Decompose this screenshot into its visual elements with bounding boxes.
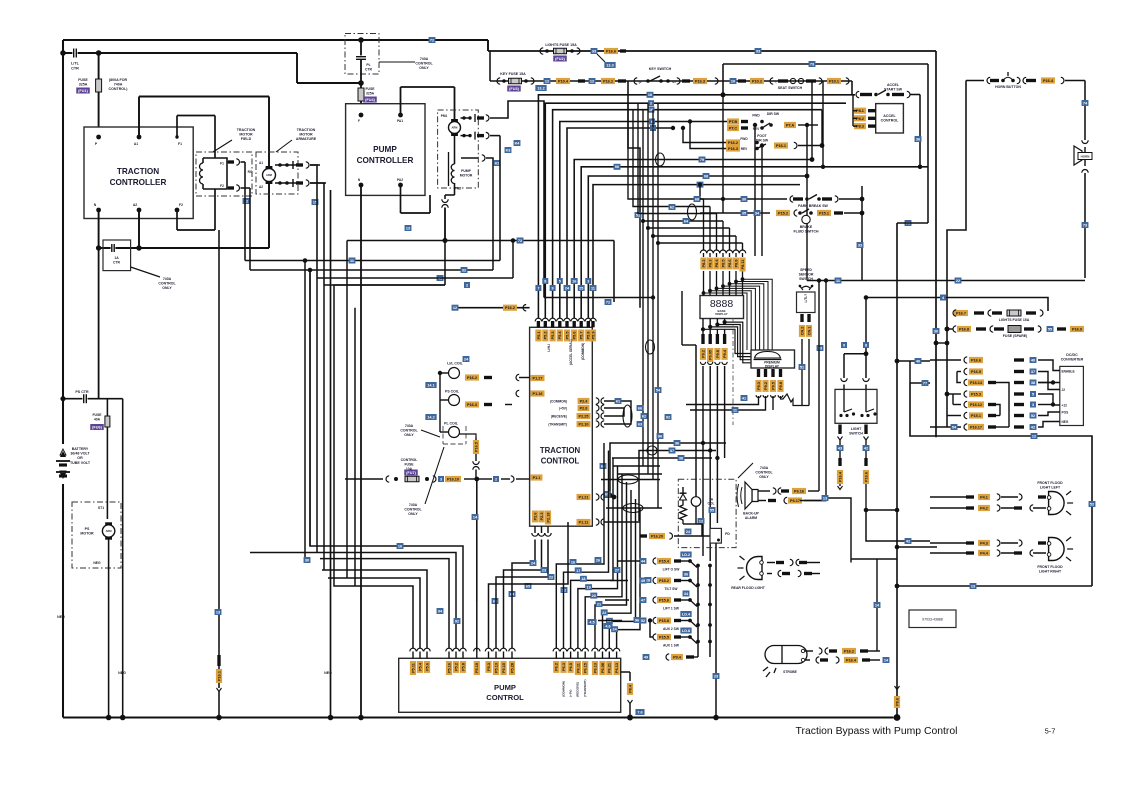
wire v947 (946, 311, 948, 427)
wire bottom negative bus (63, 716, 894, 718)
svg-text:BRAKE: BRAKE (800, 225, 813, 229)
svg-text:FRONT FLOOD: FRONT FLOOD (1037, 565, 1063, 569)
svg-text:(FU1): (FU1) (78, 89, 88, 93)
svg-text:52: 52 (1090, 502, 1094, 506)
label traction top pins (535, 330, 596, 342)
svg-text:23: 23 (714, 674, 718, 678)
node terminal A2 (133, 203, 142, 212)
svg-text:P9.8: P9.8 (716, 350, 720, 358)
svg-text:27: 27 (615, 568, 619, 572)
svg-text:ONLY: ONLY (419, 66, 429, 70)
svg-text:LIFT 1 SW: LIFT 1 SW (663, 607, 680, 611)
svg-text:42: 42 (864, 446, 868, 450)
wire v317 drop (316, 278, 318, 553)
label bundleA lbl3 (648, 107, 655, 113)
wire seat to accel (851, 81, 853, 95)
svg-text:P9.05: P9.05 (709, 350, 713, 360)
label pump comm sublabels (561, 680, 587, 698)
node row240 j (443, 238, 448, 243)
svg-text:PL COIL: PL COIL (444, 422, 459, 426)
svg-text:17: 17 (576, 569, 580, 573)
svg-text:PL: PL (366, 63, 370, 67)
wire lights column wiring (930, 360, 1009, 430)
transistor field TRACTION MOTOR FIELD (196, 152, 252, 196)
svg-text:P5.3: P5.3 (487, 663, 491, 671)
svg-text:FIELD: FIELD (241, 137, 252, 141)
label light feed lbls (841, 342, 869, 348)
label bundleB lbl1 (699, 157, 706, 163)
label horn lbls (1082, 222, 1089, 228)
svg-text:P8.6: P8.6 (728, 260, 732, 268)
svg-text:P2.10: P2.10 (579, 423, 589, 427)
lamp FRONT FLOOD LIGHT LEFT (1037, 481, 1073, 515)
svg-text:CONTROL: CONTROL (541, 457, 580, 466)
svg-text:MOTOR: MOTOR (299, 133, 313, 137)
label row280 lbls (835, 278, 962, 284)
svg-text:(TRANSMIT): (TRANSMIT) (583, 680, 587, 698)
svg-text:42: 42 (1031, 425, 1035, 429)
wire left border bus (62, 40, 64, 718)
svg-text:P8.11: P8.11 (741, 260, 745, 270)
label wire 11 (349, 258, 356, 264)
svg-text:(RECEIVE): (RECEIVE) (551, 415, 567, 419)
svg-text:REV: REV (741, 147, 748, 151)
svg-text:P5.6: P5.6 (425, 663, 429, 671)
svg-text:NEG: NEG (118, 671, 126, 675)
svg-text:FWD: FWD (752, 114, 760, 118)
svg-text:72: 72 (518, 239, 522, 243)
label 740A control only PD (738, 463, 774, 479)
switch PARK BREAK SW (700, 195, 862, 209)
node neg mid junction (328, 715, 334, 721)
svg-text:(FU4): (FU4) (365, 98, 375, 102)
svg-text:COL: COL (708, 502, 715, 506)
svg-text:P2.18: P2.18 (546, 513, 550, 523)
svg-text:4.5: 4.5 (589, 620, 594, 624)
label mid row lbls (657, 433, 685, 461)
svg-text:CTR: CTR (71, 66, 79, 70)
svg-text:33: 33 (756, 49, 760, 53)
svg-text:P1.21: P1.21 (579, 496, 589, 500)
connector comm oval (623, 405, 632, 427)
svg-text:11: 11 (591, 286, 595, 290)
svg-text:P16.4: P16.4 (838, 471, 842, 482)
label bundleA lbl4 (649, 119, 655, 125)
svg-text:PS CTR: PS CTR (75, 390, 89, 394)
wire row383 (910, 361, 930, 386)
svg-text:P16.2: P16.2 (844, 650, 854, 654)
svg-text:11: 11 (733, 408, 737, 412)
svg-text:P16.6: P16.6 (606, 50, 616, 54)
svg-text:3: 3 (1032, 403, 1034, 407)
svg-text:TRACTION: TRACTION (237, 128, 256, 132)
node N bus j2 (136, 245, 141, 250)
svg-text:LD.4: LD.4 (682, 612, 691, 616)
svg-text:12: 12 (453, 306, 457, 310)
label row296 lbl (940, 295, 946, 301)
label 8888 pin labels (700, 258, 745, 272)
svg-text:(+5V): (+5V) (568, 690, 572, 697)
svg-text:CONVERTER: CONVERTER (1061, 358, 1084, 362)
svg-text:740A: 740A (420, 57, 429, 61)
wire A1 to armature (139, 97, 269, 167)
svg-text:ARMATURE: ARMATURE (296, 137, 317, 141)
svg-text:P2.3: P2.3 (540, 513, 544, 521)
svg-text:2: 2 (466, 283, 468, 287)
label wire 33b (755, 48, 762, 54)
svg-text:RO: RO (248, 170, 253, 174)
svg-text:40A: 40A (94, 417, 101, 421)
svg-text:DIR SW: DIR SW (767, 112, 780, 116)
wire backup alarm link (800, 495, 851, 563)
switch DIR SW (727, 112, 818, 131)
op-amp DC/DC CONVERTER box (1060, 353, 1084, 426)
svg-text:P16.5: P16.5 (474, 442, 478, 452)
node terminal A1 (134, 135, 142, 146)
switch FOOT DIR SW (726, 134, 822, 152)
svg-text:P5.3: P5.3 (551, 332, 555, 340)
svg-text:S1: S1 (672, 80, 676, 84)
svg-text:49: 49 (644, 655, 648, 659)
svg-text:ST1: ST1 (98, 506, 104, 510)
motor PUMP MOTOR (438, 110, 479, 188)
connector lights connector column (964, 357, 984, 430)
svg-text:P5.13: P5.13 (494, 663, 498, 673)
capacitor LI/L CTR (71, 49, 80, 71)
svg-text:P16.3: P16.3 (728, 147, 738, 151)
wire row 285 (324, 284, 445, 286)
svg-text:P8.2: P8.2 (702, 260, 706, 268)
svg-text:PUMP: PUMP (461, 169, 472, 173)
wire armature drop 2 (310, 183, 324, 285)
wire accel right drop (919, 103, 921, 104)
svg-text:K2: K2 (495, 161, 500, 165)
svg-text:P5.6: P5.6 (573, 332, 577, 340)
svg-text:P6.21: P6.21 (608, 663, 612, 673)
svg-text:P6.5: P6.5 (569, 663, 573, 671)
wire pt return (806, 125, 808, 281)
svg-text:ARM: ARM (266, 173, 272, 177)
svg-text:BACK-UP: BACK-UP (743, 512, 759, 516)
svg-text:96: 96 (635, 618, 639, 622)
svg-text:LIGHTS FUSE 15A: LIGHTS FUSE 15A (999, 318, 1030, 322)
svg-text:P10.2: P10.2 (752, 80, 762, 84)
svg-text:P16.2: P16.2 (505, 306, 515, 310)
connector mid oval2 (618, 475, 638, 484)
svg-text:A1: A1 (259, 161, 263, 165)
label wire 13.3 (597, 54, 616, 68)
svg-text:65: 65 (526, 584, 530, 588)
svg-text:P6.16: P6.16 (794, 490, 804, 494)
svg-text:P9.8: P9.8 (779, 382, 783, 390)
label coil lbl 14.2 (425, 414, 436, 420)
label coil lbl 24 (463, 356, 470, 362)
svg-text:36: 36 (684, 572, 688, 576)
svg-text:45: 45 (641, 579, 645, 583)
svg-text:F1: F1 (220, 162, 224, 166)
svg-text:P16.17: P16.17 (970, 426, 982, 430)
wire PS fuse drop (106, 399, 108, 519)
wire light sw outputs (837, 425, 870, 511)
inductor pump field coil (449, 134, 473, 191)
wire 8888 pin risers (704, 199, 743, 250)
svg-text:12: 12 (590, 79, 594, 83)
svg-text:68: 68 (695, 197, 699, 201)
svg-text:ONLY: ONLY (162, 286, 172, 290)
wire pump coil bottom (442, 183, 455, 242)
svg-text:P5.2: P5.2 (454, 663, 458, 671)
wire bundle pump right fan (489, 437, 569, 648)
label wire 13 (405, 225, 412, 231)
wire horn feed row (723, 64, 928, 95)
svg-text:CONTROL: CONTROL (404, 508, 422, 512)
svg-text:P6.15: P6.15 (584, 663, 588, 673)
svg-text:P6.2: P6.2 (555, 663, 559, 671)
svg-text:36/48 VOLT: 36/48 VOLT (70, 452, 90, 456)
svg-text:POS: POS (1062, 411, 1069, 415)
svg-text:NEG: NEG (1062, 420, 1069, 424)
svg-text:PS: PS (85, 527, 90, 531)
svg-text:PD: PD (725, 532, 730, 536)
svg-text:7: 7 (537, 286, 539, 290)
switch BRAKE FLUID SWITCH (700, 209, 862, 234)
svg-text:LI/L COIL: LI/L COIL (447, 362, 463, 366)
svg-text:19: 19 (586, 586, 590, 590)
wire accel start right (910, 95, 922, 170)
label pump comm lbls (587, 557, 651, 629)
svg-text:FRONT FLOOD: FRONT FLOOD (1037, 481, 1063, 485)
wire alarm risers (817, 278, 828, 500)
label pump blue lbls (494, 140, 521, 166)
svg-text:740A: 740A (409, 503, 418, 507)
svg-text:33: 33 (592, 49, 596, 53)
svg-text:ARM: ARM (452, 126, 458, 130)
relay coil 1A COL (682, 291, 714, 533)
connector traction top pin connectors (535, 318, 596, 327)
label pin P1.21 (577, 494, 617, 500)
svg-text:P2.25: P2.25 (579, 415, 589, 419)
svg-text:16: 16 (571, 560, 575, 564)
svg-text:DISPLAY: DISPLAY (765, 365, 780, 369)
wire horn right drop (1082, 81, 1089, 141)
svg-text:77: 77 (923, 381, 927, 385)
svg-text:1A: 1A (114, 256, 119, 260)
node P84 j (627, 715, 633, 721)
label pin P1.1 (531, 474, 543, 480)
svg-text:PM2: PM2 (455, 187, 462, 191)
svg-text:TRACTION: TRACTION (297, 128, 316, 132)
svg-text:(FU2): (FU2) (555, 57, 565, 61)
connector 8888 oval (688, 204, 697, 220)
svg-text:P16.4: P16.4 (846, 659, 857, 663)
svg-text:30: 30 (934, 329, 938, 333)
wire pump contact drop 1 (245, 136, 500, 261)
label key row labels (535, 78, 626, 91)
node PS row junction (60, 396, 65, 401)
svg-text:22: 22 (549, 575, 553, 579)
svg-text:P15.2: P15.2 (778, 212, 788, 216)
svg-text:FUSE: FUSE (404, 462, 414, 466)
wire field F1 connector (227, 159, 245, 165)
svg-text:3: 3 (587, 279, 589, 283)
label row307 lbls (452, 299, 612, 311)
node row302 j (543, 296, 545, 298)
svg-text:66: 66 (638, 406, 642, 410)
svg-text:7.6: 7.6 (637, 710, 642, 714)
svg-text:P15.1: P15.1 (819, 212, 829, 216)
svg-text:23: 23 (542, 568, 546, 572)
svg-text:L/TL: L/TL (71, 62, 80, 66)
svg-text:P2.4: P2.4 (580, 400, 589, 404)
node bundleB j (805, 143, 825, 178)
wire top border (63, 39, 488, 41)
capacitor PL CTR (345, 34, 434, 84)
label wire 32 (461, 267, 468, 273)
svg-text:ARM: ARM (106, 529, 112, 533)
svg-text:26: 26 (596, 558, 600, 562)
svg-text:P9.4: P9.4 (723, 349, 727, 358)
svg-text:P16.5: P16.5 (971, 370, 981, 374)
svg-text:P8.8: P8.8 (734, 260, 738, 268)
node PS motor bus junction (106, 715, 112, 721)
svg-text:P8.1: P8.1 (856, 109, 864, 113)
wire row 278 (317, 238, 515, 278)
wire lift bus verticals (698, 566, 710, 658)
wire bundle pump comm staircase (556, 443, 640, 648)
wire premium drop (686, 394, 809, 410)
node terminal PA1 (397, 113, 403, 123)
node v894 j (894, 359, 900, 708)
wire bundle traction top staircase A (538, 95, 855, 318)
svg-text:13: 13 (216, 610, 220, 614)
svg-text:4.6: 4.6 (605, 624, 610, 628)
svg-text:KEY FUSE 15A: KEY FUSE 15A (500, 72, 526, 76)
svg-text:CONTROL: CONTROL (755, 471, 773, 475)
svg-text:13: 13 (406, 226, 410, 230)
svg-text:08: 08 (704, 174, 708, 178)
node v947 js (945, 327, 950, 397)
label TRACTION MOTOR FIELD (213, 128, 256, 152)
label mid vert lbls (600, 387, 672, 497)
label wire 72 top (429, 37, 436, 43)
svg-text:12: 12 (699, 519, 703, 523)
svg-text:BATTERY: BATTERY (72, 447, 89, 451)
svg-text:52: 52 (641, 619, 645, 623)
svg-text:P16.1: P16.1 (776, 144, 786, 148)
label wire 73 (809, 61, 816, 67)
wire v445 riser (443, 208, 448, 286)
connector mid oval1 (647, 446, 657, 455)
label ctl drop lbl (472, 514, 479, 520)
svg-text:SWITCH: SWITCH (849, 432, 863, 436)
svg-text:ONLY: ONLY (408, 512, 418, 516)
svg-text:FUSE: FUSE (365, 87, 375, 91)
wire light switch feed (844, 295, 868, 378)
node PL junction (358, 80, 364, 86)
label traction bottom pins (532, 511, 551, 537)
svg-text:14.1: 14.1 (427, 383, 434, 387)
svg-text:96: 96 (658, 434, 662, 438)
label bundleB lbl4 (697, 182, 704, 188)
svg-text:LIGHTS FUSE 15A: LIGHTS FUSE 15A (545, 43, 577, 47)
svg-text:REV: REV (753, 127, 760, 131)
op-amp U-TRACTION CONTROLLER box (84, 127, 193, 219)
svg-text:P10.1: P10.1 (829, 80, 839, 84)
wire 8888 pins (700, 250, 745, 296)
svg-text:20: 20 (592, 594, 596, 598)
svg-text:63: 63 (638, 422, 642, 426)
svg-text:P6.3: P6.3 (562, 663, 566, 671)
display 8888 BASE DISPLAY (700, 296, 744, 319)
label NEG mid (324, 671, 332, 675)
label key drop lbl (635, 212, 642, 218)
svg-text:5: 5 (1032, 392, 1034, 396)
node terminal F1 (175, 135, 182, 146)
fuse CONTROL FUSE 10A (386, 458, 530, 482)
svg-text:TILT SW: TILT SW (665, 587, 679, 591)
node park j (860, 197, 865, 202)
svg-text:740A: 740A (163, 277, 172, 281)
label comm pins (548, 398, 590, 427)
label NEG left (57, 615, 65, 619)
label wire 36 (915, 136, 922, 142)
wire N down (98, 248, 100, 399)
label wire 41 (437, 275, 470, 288)
svg-text:55: 55 (1048, 327, 1052, 331)
connector light sw conns (841, 378, 869, 389)
svg-text:A1: A1 (134, 142, 138, 146)
wire PD feed (640, 533, 710, 539)
svg-text:13: 13 (971, 584, 975, 588)
lamp FRONT FLOOD LIGHT RIGHT (1037, 537, 1073, 574)
svg-text:PT.B: PT.B (729, 120, 737, 124)
svg-text:ONLY: ONLY (759, 475, 769, 479)
diode D1 (678, 479, 736, 547)
wire PA1 to pump motor (401, 87, 455, 121)
wire park return (838, 186, 862, 281)
svg-text:42: 42 (906, 539, 910, 543)
svg-text:325A: 325A (79, 83, 88, 87)
wire 8888 long drops (700, 362, 727, 561)
wire row 296 (544, 295, 1048, 311)
svg-text:P2.6: P2.6 (533, 513, 537, 521)
wire pump contact drop 2 (250, 269, 493, 271)
label row437 lbls (1031, 433, 1096, 507)
wire lift switch contacts (681, 559, 712, 643)
svg-text:P10.4: P10.4 (558, 80, 569, 84)
node dir j1 (671, 119, 692, 130)
svg-text:(FU6): (FU6) (92, 425, 102, 429)
svg-text:P5.4: P5.4 (558, 331, 562, 340)
wire bundle mid rows2 (601, 466, 662, 508)
svg-text:P16.2: P16.2 (467, 376, 477, 380)
svg-text:START SW: START SW (884, 88, 903, 92)
wire flood left wires (930, 494, 1046, 511)
wire row361 (897, 358, 930, 364)
svg-text:61: 61 (616, 399, 620, 403)
wire pump coil tap (461, 155, 493, 270)
label pump control pin labels (410, 661, 620, 675)
wire bundle 8888 right fan (702, 277, 773, 350)
wire key fuse drop (489, 51, 491, 81)
wire P drop (98, 53, 100, 137)
svg-text:ALARM: ALARM (745, 516, 757, 520)
svg-text:P4.2: P4.2 (980, 507, 988, 511)
svg-text:(FU7): (FU7) (406, 471, 416, 475)
svg-text:8: 8 (865, 343, 867, 347)
svg-text:P5.5: P5.5 (565, 332, 569, 340)
svg-text:PUMP: PUMP (373, 145, 397, 154)
